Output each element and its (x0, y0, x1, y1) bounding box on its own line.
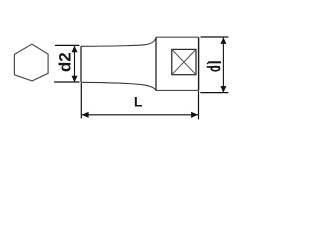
hexagon (socket hex end view) (14, 44, 48, 81)
svg-text:L: L (134, 94, 143, 110)
dimension d1 top extension line (201, 36, 229, 38)
drive end rectangle left edge (155, 37, 157, 90)
square drive recess (172, 49, 196, 74)
dimension L arrow right (191, 112, 198, 118)
dimension L right extension line (198, 91, 200, 119)
dimension d1 arrow down (220, 86, 226, 93)
dimension d2 arrow up (72, 46, 78, 53)
svg-text:d2: d2 (56, 52, 75, 72)
socket body bottom edge with flare (81, 82, 156, 90)
dimension L left extension line (80, 83, 82, 118)
label d1 : digit 1 flag (207, 63, 208, 65)
dimension L dimension line (82, 114, 198, 116)
dimension d2 top extension line (55, 44, 80, 46)
dimension d2 arrow down (72, 76, 78, 83)
square drive recess diagonal 2 (172, 49, 196, 74)
label d1 (rotated, drawn as strokes to match scan) : digit 1 stem (208, 61, 221, 63)
dimension L arrow left (82, 112, 89, 118)
dimension d2 dimension line (74, 46, 76, 82)
dimension d1 arrow up (220, 37, 226, 44)
drive end rectangle top edge (156, 36, 199, 38)
label d1 : letter d bowl (211, 67, 219, 71)
square drive recess diagonal 1 (172, 49, 196, 74)
dimension d1 dimension line (222, 38, 224, 93)
dimension d1 bottom extension line (200, 92, 228, 94)
drive end rectangle bottom edge (156, 89, 199, 91)
drive end rectangle right edge (198, 37, 200, 90)
socket body top edge with flare (81, 38, 156, 46)
dimension d2 bottom extension line (54, 81, 79, 83)
label d1 : letter d stem (207, 66, 220, 68)
socket body left end (closed face) (80, 46, 82, 82)
